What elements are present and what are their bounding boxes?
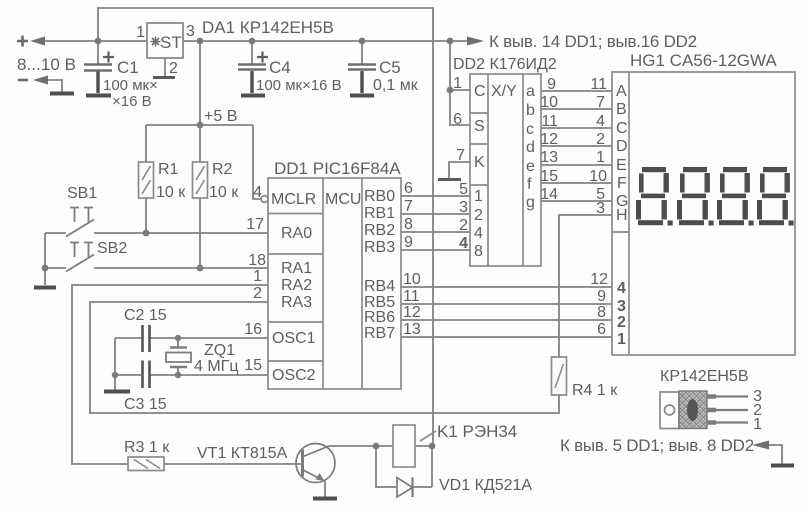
svg-text:10: 10 <box>589 168 607 185</box>
svg-text:b: b <box>526 102 535 119</box>
svg-text:RB2: RB2 <box>364 222 395 239</box>
svg-text:11: 11 <box>541 113 558 130</box>
svg-text:9: 9 <box>547 76 556 93</box>
svg-text:14: 14 <box>540 186 558 203</box>
svg-text:VD1 КД521А: VD1 КД521А <box>439 477 532 494</box>
svg-text:3: 3 <box>596 200 605 217</box>
svg-text:RA2: RA2 <box>281 277 312 294</box>
svg-text:A: A <box>616 83 627 100</box>
svg-text:3: 3 <box>459 199 468 216</box>
svg-text:ST: ST <box>160 33 182 52</box>
svg-text:10 к: 10 к <box>156 184 186 201</box>
svg-text:S: S <box>474 118 485 135</box>
svg-text:c: c <box>526 121 534 138</box>
svg-text:0,1 мк: 0,1 мк <box>373 77 419 94</box>
svg-text:+5 В: +5 В <box>204 108 237 125</box>
svg-text:4: 4 <box>617 280 626 297</box>
svg-text:8: 8 <box>474 243 483 260</box>
svg-text:4: 4 <box>253 184 262 201</box>
svg-text:RB0: RB0 <box>364 188 395 205</box>
svg-text:4 МГц: 4 МГц <box>194 358 239 375</box>
svg-text:1: 1 <box>596 149 605 166</box>
svg-text:RB6: RB6 <box>364 309 395 326</box>
svg-text:8: 8 <box>404 216 413 233</box>
svg-text:DD1 PIC16F84A: DD1 PIC16F84A <box>274 159 401 178</box>
svg-text:8...10 В: 8...10 В <box>17 55 76 74</box>
svg-text:DA1 КР142ЕН5В: DA1 КР142ЕН5В <box>202 18 334 37</box>
svg-text:К выв. 14 DD1; выв.16 DD2: К выв. 14 DD1; выв.16 DD2 <box>489 32 697 51</box>
svg-text:1: 1 <box>753 416 762 433</box>
svg-text:RA0: RA0 <box>281 225 312 242</box>
svg-text:100 мк×: 100 мк× <box>103 77 158 94</box>
svg-text:16: 16 <box>244 321 262 338</box>
svg-text:6: 6 <box>453 111 462 128</box>
svg-text:VT1 КТ815А: VT1 КТ815А <box>197 445 288 462</box>
svg-text:g: g <box>526 194 535 211</box>
svg-text:КР142ЕН5В: КР142ЕН5В <box>660 368 748 385</box>
svg-text:17: 17 <box>246 216 264 233</box>
svg-text:6: 6 <box>404 180 413 197</box>
svg-text:K: K <box>474 154 485 171</box>
svg-text:11: 11 <box>590 76 607 93</box>
svg-text:×16 В: ×16 В <box>112 93 152 110</box>
svg-text:7: 7 <box>456 147 465 164</box>
svg-text:RA3: RA3 <box>281 294 312 311</box>
svg-text:R2: R2 <box>212 161 233 178</box>
svg-text:RB4: RB4 <box>364 278 395 295</box>
svg-text:100 мк×16 В: 100 мк×16 В <box>256 77 342 94</box>
svg-text:6: 6 <box>597 321 606 338</box>
svg-text:e: e <box>526 158 535 175</box>
svg-text:4: 4 <box>459 235 468 252</box>
svg-text:1: 1 <box>136 24 145 41</box>
svg-text:7: 7 <box>404 198 413 215</box>
svg-text:K1 РЭН34: K1 РЭН34 <box>437 422 517 441</box>
svg-text:d: d <box>526 139 535 156</box>
svg-text:1: 1 <box>453 75 462 92</box>
svg-text:R4 1 к: R4 1 к <box>572 382 618 399</box>
svg-text:8: 8 <box>597 304 606 321</box>
svg-text:C1: C1 <box>117 58 139 77</box>
svg-text:C: C <box>474 83 486 100</box>
svg-text:3: 3 <box>617 298 626 315</box>
svg-text:X/Y: X/Y <box>491 83 517 100</box>
svg-text:15: 15 <box>540 168 558 185</box>
svg-text:F: F <box>617 175 627 192</box>
svg-text:C2 15: C2 15 <box>124 307 167 324</box>
svg-text:SB1: SB1 <box>67 185 97 202</box>
svg-text:OSC2: OSC2 <box>272 367 316 384</box>
svg-text:RB1: RB1 <box>364 205 395 222</box>
svg-text:R3 1 к: R3 1 к <box>124 439 170 456</box>
svg-text:2: 2 <box>474 207 483 224</box>
svg-text:К выв. 5 DD1; выв. 8 DD2: К выв. 5 DD1; выв. 8 DD2 <box>560 436 754 455</box>
svg-text:12: 12 <box>590 271 608 288</box>
svg-text:1: 1 <box>253 268 262 285</box>
svg-text:SB2: SB2 <box>97 240 127 257</box>
svg-text:ZQ1: ZQ1 <box>204 342 235 359</box>
svg-text:B: B <box>616 101 627 118</box>
svg-text:13: 13 <box>403 321 421 338</box>
svg-text:11: 11 <box>403 288 420 305</box>
svg-text:2: 2 <box>253 285 262 302</box>
svg-text:2: 2 <box>596 131 605 148</box>
svg-text:10: 10 <box>403 271 421 288</box>
svg-text:9: 9 <box>597 288 606 305</box>
svg-text:DD2 К176ИД2: DD2 К176ИД2 <box>453 56 557 73</box>
svg-text:2: 2 <box>169 60 178 77</box>
svg-text:a: a <box>526 83 535 100</box>
svg-text:15: 15 <box>244 357 262 374</box>
svg-text:MCLR: MCLR <box>271 191 316 208</box>
svg-text:10 к: 10 к <box>209 184 239 201</box>
svg-text:C5: C5 <box>379 58 401 77</box>
svg-text:7: 7 <box>596 94 605 111</box>
svg-text:RA1: RA1 <box>281 260 312 277</box>
svg-text:E: E <box>616 157 627 174</box>
svg-text:R1: R1 <box>158 161 179 178</box>
svg-text:9: 9 <box>404 234 413 251</box>
svg-text:5: 5 <box>459 181 468 198</box>
svg-text:12: 12 <box>403 304 421 321</box>
svg-text:C4: C4 <box>269 58 291 77</box>
svg-text:4: 4 <box>596 113 605 130</box>
svg-text:12: 12 <box>540 131 558 148</box>
svg-text:RB3: RB3 <box>364 239 395 256</box>
svg-text:f: f <box>527 176 532 193</box>
svg-text:RB7: RB7 <box>364 325 395 342</box>
svg-text:C: C <box>616 120 628 137</box>
svg-text:1: 1 <box>474 188 483 205</box>
svg-text:4: 4 <box>474 225 483 242</box>
svg-text:3: 3 <box>186 23 195 40</box>
svg-text:1: 1 <box>617 331 626 348</box>
svg-text:D: D <box>616 138 628 155</box>
svg-text:2: 2 <box>459 217 468 234</box>
svg-text:H: H <box>616 207 628 224</box>
svg-text:C3 15: C3 15 <box>124 396 167 413</box>
svg-text:OSC1: OSC1 <box>272 330 316 347</box>
svg-text:13: 13 <box>540 149 558 166</box>
svg-text:2: 2 <box>617 314 626 331</box>
svg-text:HG1 CA56-12GWA: HG1 CA56-12GWA <box>630 51 777 70</box>
svg-text:18: 18 <box>248 252 266 269</box>
svg-text:MCU: MCU <box>325 191 361 208</box>
svg-text:10: 10 <box>540 94 558 111</box>
